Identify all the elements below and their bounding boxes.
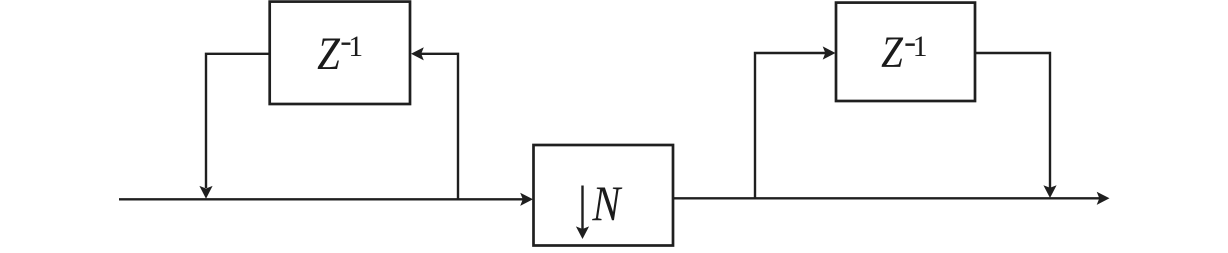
delay block Z^-1 left (U1) (270, 2, 410, 104)
wire right tap: main line up and into right box (755, 53, 826, 198)
arrowhead into decimator (right-pointing) (520, 193, 533, 206)
wire left tap: main line up to arrow into box right edge (420, 54, 458, 200)
wire left feedback: box left edge to down-arrow (206, 54, 269, 188)
decimator block downarrow N (U3) (534, 145, 674, 246)
arrowhead into left box (left-pointing) (411, 47, 424, 60)
wire main input line (119, 198, 523, 200)
delay block Z^-1 right (U2) (836, 3, 975, 101)
arrowhead right feedback down onto main line (1043, 185, 1056, 198)
svg-text:Z: Z (317, 29, 340, 80)
svg-text:1: 1 (348, 31, 363, 63)
label Z^-1 left (317, 29, 363, 80)
wire output line from N box (673, 197, 1101, 199)
wire right feedback: box right edge down to main line (975, 53, 1050, 189)
label Z^-1 right (881, 29, 927, 78)
svg-text:Z: Z (881, 29, 904, 78)
arrowhead output (right-pointing) (1097, 192, 1110, 205)
decimator internal down arrow (576, 186, 589, 240)
arrowhead left feedback down onto main line (199, 186, 212, 199)
svg-text:1: 1 (913, 31, 928, 63)
svg-text:N: N (591, 176, 622, 231)
arrowhead into right box (right-pointing) (823, 46, 836, 59)
